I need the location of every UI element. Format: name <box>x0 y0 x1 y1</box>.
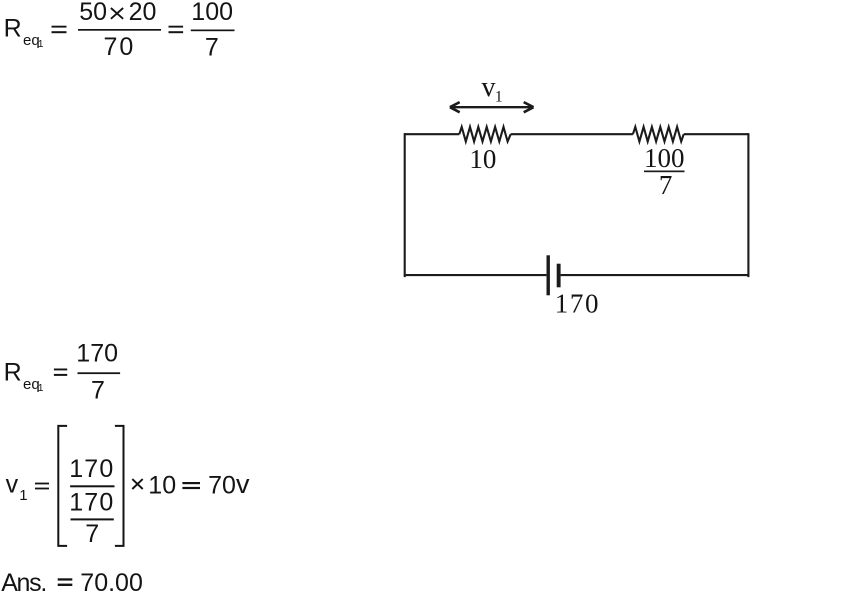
E2 fraction bar <box>78 372 121 374</box>
svg-text:R: R <box>4 359 22 387</box>
svg-text:100: 100 <box>644 143 685 173</box>
E3 outer fraction bar <box>70 485 114 487</box>
svg-text:7: 7 <box>85 520 99 548</box>
equation E1: Req1 = 50x20/70 = 100/7 <box>4 0 235 61</box>
arrow v1 double-headed shaft <box>451 106 533 108</box>
arrow v1 right head <box>524 102 534 112</box>
answer line: Ans. = 70.00 <box>1 569 143 597</box>
svg-text:1: 1 <box>38 39 44 50</box>
equation E3: v1 = [170/(170/7)] x 10 = 70 v <box>6 425 250 548</box>
resistor R1 (10 ohm) zigzag <box>459 127 510 142</box>
wire: left vertical <box>404 134 406 276</box>
wire: top left segment <box>405 133 460 135</box>
svg-text:170: 170 <box>69 489 114 517</box>
E1 fraction bar 2 <box>191 30 235 32</box>
svg-text:R: R <box>4 15 22 43</box>
svg-text:20: 20 <box>129 0 157 26</box>
svg-text:50: 50 <box>79 0 107 26</box>
svg-text:10: 10 <box>148 471 176 499</box>
svg-text:Ans.: Ans. <box>1 569 46 597</box>
svg-text:170: 170 <box>76 340 118 368</box>
resistor R2 (100/7 ohm) zigzag <box>633 127 684 142</box>
E1 equals 2 <box>169 26 184 28</box>
E2 equals <box>54 369 67 371</box>
svg-text:1: 1 <box>495 89 503 106</box>
arrow v1 left head <box>450 102 460 112</box>
wire: bottom right segment <box>561 274 749 276</box>
E3 left bracket <box>57 425 67 547</box>
svg-text:1: 1 <box>19 487 27 504</box>
svg-text:70.00: 70.00 <box>80 569 143 597</box>
svg-text:100: 100 <box>191 0 233 26</box>
svg-text:170: 170 <box>69 455 114 483</box>
svg-text:170: 170 <box>555 288 600 318</box>
svg-text:7: 7 <box>205 33 219 61</box>
svg-text:v: v <box>236 469 250 499</box>
svg-text:1: 1 <box>38 383 44 394</box>
battery V1 short plate <box>557 264 561 288</box>
E3 inner fraction bar <box>71 518 114 520</box>
E3 right bracket <box>115 425 125 547</box>
svg-text:10: 10 <box>469 144 496 174</box>
svg-text:v: v <box>6 471 19 499</box>
label fraction bar for 100/7 <box>644 171 685 173</box>
battery V1 long plate <box>547 255 550 295</box>
wire: right vertical <box>747 134 749 276</box>
svg-text:70: 70 <box>208 471 236 499</box>
equation E2: Req1 = 170/7 <box>4 340 121 405</box>
E3 equals 2 <box>182 482 200 484</box>
E1 times sign <box>111 8 123 19</box>
E3 times sign <box>132 479 142 489</box>
svg-text:7: 7 <box>659 170 673 200</box>
svg-text:7: 7 <box>91 377 105 405</box>
E1 fraction bar 1 <box>78 29 161 31</box>
wire: bottom left segment <box>405 274 547 276</box>
E3 equals 1 <box>35 483 49 485</box>
svg-text:70: 70 <box>104 33 136 61</box>
svg-text:v: v <box>482 72 496 103</box>
Ans equals <box>58 578 73 580</box>
wire: top middle segment <box>511 133 633 135</box>
wire: top right segment <box>684 133 749 135</box>
circuit schematic <box>405 127 749 276</box>
E1 equals 1 <box>52 26 67 28</box>
